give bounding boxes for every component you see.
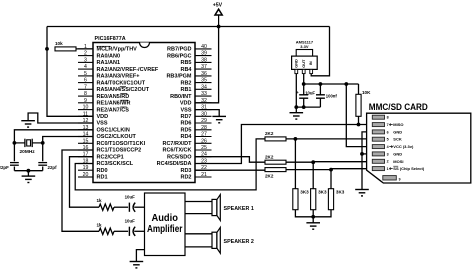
svg-text:3K3: 3K3 [318, 189, 327, 194]
pin 19 RD0 [78, 165, 108, 174]
pin 2 RA0/AN0 [78, 51, 120, 60]
resistor 10k MCLR pull-up [55, 41, 76, 51]
wire 3K3 bus to ground [312, 217, 314, 223]
svg-text:GND: GND [294, 59, 299, 68]
svg-text:3K3: 3K3 [336, 189, 345, 194]
wire amplifier out 2b to speaker2 [185, 246, 212, 248]
ground at VSS pin31 [212, 116, 226, 122]
svg-text:SS (Chip Select): SS (Chip Select) [393, 166, 425, 171]
capacitor C1 22pF [0, 163, 19, 170]
ground at 3K3 resistors [306, 223, 320, 229]
svg-text:10uF: 10uF [125, 194, 136, 199]
wire AMS1117 IN to +5V rail [311, 27, 329, 76]
svg-text:22pf: 22pf [48, 165, 58, 170]
pin 37 RB4 [180, 64, 211, 73]
ground at crystal [22, 176, 36, 182]
pin 36 RB3/PGM [166, 71, 211, 80]
pin 10 RE2/AN7/CS [78, 105, 129, 114]
pin 35 RB2 [180, 78, 211, 87]
svg-text:RA4/T0CKI/C1OUT: RA4/T0CKI/C1OUT [97, 80, 146, 86]
svg-text:27: 27 [201, 132, 207, 138]
svg-text:VCC (3.3v): VCC (3.3v) [393, 144, 414, 149]
chip U1 PIC16F877A body [93, 36, 195, 182]
svg-text:PIC16F877A: PIC16F877A [95, 36, 126, 42]
pin 11 VDD [78, 111, 108, 120]
svg-text:MMC/SD CARD: MMC/SD CARD [369, 102, 428, 113]
wire SD card GND pad3 [362, 153, 372, 155]
svg-text:9: 9 [84, 98, 87, 104]
wire 3.3V to SD card VCC pad4 [346, 84, 372, 147]
overline WR pin9 [120, 99, 128, 101]
svg-text:22pF: 22pF [0, 165, 9, 170]
svg-text:4: 4 [387, 145, 389, 149]
ground at SD card [355, 190, 369, 196]
pin 21 RD2 [180, 172, 211, 181]
wire SS node to 3K3 R11 [330, 170, 332, 189]
pad 5 SCK [372, 137, 402, 142]
svg-text:1: 1 [387, 167, 389, 171]
overline MCLR pin1 [97, 45, 111, 47]
svg-text:MOSI: MOSI [393, 159, 403, 164]
pin 4 RA2/AN2/VREF-/CVREF [78, 64, 159, 73]
wire crystal right to C2 [42, 143, 44, 161]
svg-text:RE1/AN6/WR: RE1/AN6/WR [97, 101, 131, 107]
overline RD pin8 [120, 93, 127, 95]
pin 31 VSS [180, 105, 211, 114]
svg-text:RB3/PGM: RB3/PGM [166, 74, 191, 80]
svg-text:+5V: +5V [213, 3, 223, 9]
svg-text:Amplifier: Amplifier [147, 224, 183, 235]
pin 18 RC3/SCK/SCL [78, 159, 134, 168]
svg-text:RA1/AN1: RA1/AN1 [97, 60, 121, 66]
node 3.3V at C4 [319, 82, 323, 86]
wire 10k to MCLR pin1 [76, 48, 93, 50]
wire +5V rail [47, 26, 330, 28]
svg-text:9: 9 [399, 177, 401, 181]
pin 33 RB0/INT [170, 91, 211, 100]
node SD card grounds [360, 152, 364, 156]
svg-text:3K3: 3K3 [300, 189, 309, 194]
pad 1 SS (Chip Select) [372, 166, 425, 171]
svg-text:8: 8 [84, 91, 87, 97]
node 3.3V at OUT [302, 82, 306, 86]
pin 30 RD7 [180, 111, 211, 120]
svg-text:RC3/SCK/SCL: RC3/SCK/SCL [97, 161, 134, 167]
pin 1 MCLR/Vpp/THV [78, 44, 137, 53]
wire crystal left to C1 [13, 143, 15, 161]
svg-text:RA3/AN3/VREF+: RA3/AN3/VREF+ [97, 74, 140, 80]
svg-text:RB7/PGD: RB7/PGD [167, 47, 191, 53]
svg-text:2K2: 2K2 [265, 173, 274, 178]
node crystal left [13, 141, 17, 145]
wire 10K to MISO line [358, 116, 360, 124]
wire C4 to ground bus [319, 98, 321, 107]
svg-text:20: 20 [83, 172, 89, 178]
capacitor C4 100nF [316, 94, 337, 99]
pad 4 VCC (3.3v) [372, 144, 414, 149]
pin 20 RD1 [78, 172, 108, 181]
pin 9 RE1/AN6/WR [78, 98, 130, 107]
svg-text:GND: GND [393, 129, 402, 134]
wire OSC1 pin13 to crystal [14, 130, 93, 143]
power +5V [213, 3, 223, 27]
svg-text:RE0/AN5/RD: RE0/AN5/RD [97, 94, 130, 100]
svg-text:OUT: OUT [301, 59, 306, 68]
svg-text:2K2: 2K2 [265, 131, 274, 136]
wire 1k R5 to C6 [114, 230, 128, 232]
pin 32 VDD [180, 98, 212, 107]
pin 6 RA4/T0CKI/C1OUT [78, 78, 146, 87]
pin 25 RC6/TX/CK [162, 145, 211, 154]
svg-text:RD3: RD3 [180, 168, 191, 174]
wire SD card GND pad6 down [362, 132, 372, 189]
ground at amplifier [130, 262, 144, 268]
svg-text:37: 37 [201, 64, 207, 70]
svg-text:39: 39 [201, 51, 207, 57]
regulator U3 AMS1117 3.3V [292, 40, 318, 74]
svg-text:30: 30 [201, 111, 207, 117]
wire to regulator ground symbol [295, 107, 297, 113]
svg-text:20MHz: 20MHz [20, 149, 36, 155]
node SCK divider [294, 137, 298, 141]
svg-text:GND: GND [393, 151, 402, 156]
pin 3 RA1/AN1 [78, 57, 120, 66]
svg-text:19: 19 [83, 165, 89, 171]
svg-text:10k: 10k [55, 41, 63, 46]
svg-text:Audio: Audio [151, 213, 178, 224]
wire 3.3V line to 10K pull-up [304, 83, 359, 85]
svg-text:RB1: RB1 [180, 87, 191, 93]
pin 15 RC0/T1OSO/T1CKI [78, 138, 146, 147]
svg-text:RC4/SDI/SDA: RC4/SDI/SDA [157, 161, 192, 167]
svg-text:21: 21 [201, 172, 207, 178]
pad 7 MISO [372, 122, 403, 127]
connector J1 MMC/SD card [367, 102, 471, 183]
node MCLR pull-up [45, 47, 49, 51]
wire 3.3V to C4 [319, 84, 321, 95]
svg-text:RA2/AN2/VREF-/CVREF: RA2/AN2/VREF-/CVREF [97, 67, 159, 73]
wire C2 to ground bus [42, 167, 44, 171]
wire VSS pin31 to ground [195, 110, 219, 117]
svg-text:OSC1/CLKIN: OSC1/CLKIN [97, 128, 130, 134]
svg-text:SPEAKER 2: SPEAKER 2 [224, 239, 254, 245]
pin 34 RB1 [180, 84, 211, 93]
wire C5 to amplifier input 1 [134, 206, 144, 208]
wire +5V to MCLR node and VDD pin 11 [47, 27, 93, 117]
svg-text:6: 6 [84, 78, 87, 84]
wire SS node to SD card SS pad1 [331, 168, 372, 170]
svg-text:RD5: RD5 [180, 128, 191, 134]
pin 5 RA3/AN3/VREF+ [78, 71, 139, 80]
svg-text:10K: 10K [362, 90, 371, 95]
svg-text:RC5/SDO: RC5/SDO [167, 154, 192, 160]
wire RC5/SDO pin24 to 2K2 R7 [195, 157, 265, 163]
svg-text:1: 1 [84, 44, 87, 50]
wire C1 to ground bus [13, 167, 15, 171]
wire C3 to ground bus [303, 98, 305, 107]
pin 27 RD4 [180, 132, 211, 141]
junction +5V rail / VDD pin32 drop [217, 25, 221, 29]
pin 17 RC2/CCP1 [78, 152, 124, 161]
svg-text:SPEAKER 1: SPEAKER 1 [224, 206, 254, 212]
svg-text:MCLR/Vpp/THV: MCLR/Vpp/THV [97, 47, 138, 53]
svg-text:5: 5 [84, 71, 87, 77]
wire +5V to VDD pin 32 [195, 27, 219, 103]
svg-text:SCK: SCK [393, 137, 402, 142]
svg-text:IN: IN [308, 61, 313, 65]
svg-text:8: 8 [387, 116, 389, 120]
wire RC2/CCP1 pin17 to 1k R4 [70, 157, 100, 208]
svg-text:RC1/T1OSI/CCP2: RC1/T1OSI/CCP2 [97, 148, 142, 154]
svg-text:RB6/PGC: RB6/PGC [167, 53, 191, 59]
svg-text:4: 4 [84, 64, 87, 70]
svg-text:VSS: VSS [180, 107, 191, 113]
svg-text:40: 40 [201, 44, 207, 50]
pin 23 RC4/SDI/SDA [157, 159, 212, 168]
wire 3K3 commons [295, 210, 331, 217]
pin 38 RB5 [180, 57, 211, 66]
svg-text:3.3V: 3.3V [300, 44, 309, 49]
node MISO pull-up [357, 123, 361, 127]
wire amplifier out 1b to speaker1 [185, 213, 212, 215]
pin 26 RC7/RX/DT [162, 138, 211, 147]
node crystal ground [27, 169, 31, 173]
wire OSC2 pin14 to crystal [43, 137, 93, 143]
pin 39 RB6/PGC [167, 51, 211, 60]
svg-text:3: 3 [84, 57, 87, 63]
resistor R8 2K2 SS [265, 168, 286, 179]
svg-text:2: 2 [84, 51, 87, 57]
crystal X1 20MHz [14, 139, 42, 156]
ground at regulator [290, 113, 304, 119]
pin 24 RC5/SDO [167, 152, 211, 161]
svg-text:3: 3 [387, 152, 389, 156]
node regulator ground a [294, 105, 298, 109]
node 3K3 ground bus [311, 215, 315, 219]
svg-text:32: 32 [201, 98, 207, 104]
pin 8 RE0/AN5/RD [78, 91, 129, 100]
pin 28 RD5 [180, 125, 211, 134]
overline SS pin7 [120, 86, 126, 88]
ground at VSS pin12 [21, 121, 35, 127]
svg-text:VDD: VDD [180, 101, 192, 107]
svg-text:RD7: RD7 [180, 114, 191, 120]
wire AMS1117 GND leg down [295, 74, 297, 108]
svg-text:RB0/INT: RB0/INT [170, 94, 192, 100]
resistor R11 3K3 [328, 189, 344, 210]
wire 2K2 R7 to MOSI node [286, 161, 313, 163]
pad 8 [372, 115, 388, 119]
svg-text:RC7/RX/DT: RC7/RX/DT [162, 141, 192, 147]
svg-text:RD2: RD2 [180, 175, 191, 181]
resistor R4 1k [97, 198, 115, 210]
pin 22 RD3 [180, 165, 211, 174]
svg-text:38: 38 [201, 57, 207, 63]
svg-text:RD0: RD0 [97, 168, 108, 174]
pin 12 VSS [78, 118, 108, 127]
svg-text:100nf: 100nf [326, 94, 338, 99]
pad 6 GND [372, 129, 402, 134]
overline CS pin10 [120, 106, 127, 108]
wire 2K2 R6 to SD card SCK pad5 [286, 138, 372, 140]
svg-text:35: 35 [201, 78, 207, 84]
svg-text:6: 6 [387, 130, 389, 134]
pin 40 RB7/PGD [167, 44, 211, 53]
wire SCK node to 3K3 R9 [294, 139, 296, 189]
svg-text:5: 5 [387, 138, 389, 142]
pad 3 GND [372, 151, 402, 156]
pin 16 RC1/T1OSI/CCP2 [78, 145, 141, 154]
svg-text:RB2: RB2 [180, 80, 191, 86]
svg-text:1k: 1k [97, 222, 103, 227]
svg-text:28: 28 [201, 125, 207, 131]
svg-text:15: 15 [83, 138, 89, 144]
node MOSI divider [311, 160, 315, 164]
pin 13 OSC1/CLKIN [78, 125, 130, 134]
resistor R7 2K2 MOSI [265, 154, 286, 164]
svg-text:7: 7 [387, 123, 389, 127]
svg-text:RB4: RB4 [180, 67, 192, 73]
wire amplifier out 1a to speaker1 [185, 201, 212, 203]
svg-text:MISO: MISO [393, 122, 403, 127]
capacitor C2 22pF [38, 163, 57, 170]
wire crystal ground bus [14, 170, 42, 172]
wire MOSI node to 3K3 R10 [312, 162, 314, 189]
wire amplifier to ground [136, 250, 144, 262]
svg-text:RE2/AN7/CS: RE2/AN7/CS [97, 107, 130, 113]
wire VSS pin12 to ground [28, 113, 93, 123]
wire RC4/SDI pin23 to SD card MISO pad7 [195, 125, 372, 164]
capacitor C3 10uF [296, 90, 315, 98]
audio amplifier U2 [145, 193, 186, 256]
svg-text:RD4: RD4 [180, 134, 192, 140]
wire regulator ground bus [296, 106, 320, 108]
pad 2 MOSI [372, 159, 403, 164]
wire MOSI node to SD card MOSI pad2 [313, 161, 372, 163]
svg-text:11: 11 [83, 111, 88, 117]
wire to crystal ground symbol [27, 171, 29, 176]
wire C6 to amplifier input 2 [134, 230, 144, 232]
svg-text:26: 26 [201, 138, 207, 144]
resistor R10 3K3 [311, 189, 327, 210]
pin 7 RA5/AN4/SS/C2OUT [78, 84, 150, 93]
resistor R9 3K3 [293, 189, 309, 210]
svg-text:RC0/T1OSO/T1CKI: RC0/T1OSO/T1CKI [97, 141, 146, 147]
resistor R5 1k [97, 222, 115, 234]
wire RC1/CCP2 pin16 to 1k R5 [62, 150, 99, 231]
svg-text:RA0/AN0: RA0/AN0 [97, 53, 121, 59]
node crystal right [41, 141, 45, 145]
node regulator ground b [302, 105, 306, 109]
speaker SPEAKER 1 [212, 195, 254, 221]
svg-text:10uF: 10uF [305, 90, 315, 95]
speaker SPEAKER 2 [212, 227, 254, 253]
svg-text:10: 10 [83, 105, 89, 111]
svg-text:VDD: VDD [97, 114, 109, 120]
svg-text:33: 33 [201, 91, 207, 97]
svg-text:2K2: 2K2 [265, 154, 274, 159]
wire 2K2 R8 to SS node [286, 169, 331, 171]
svg-text:29: 29 [201, 118, 207, 124]
pad 9 [383, 176, 401, 182]
svg-text:1k: 1k [97, 198, 103, 203]
svg-text:RC2/CCP1: RC2/CCP1 [97, 154, 124, 160]
node SS divider [329, 168, 333, 172]
svg-text:34: 34 [201, 84, 207, 90]
svg-text:RD1: RD1 [97, 175, 108, 181]
svg-text:RB5: RB5 [180, 60, 191, 66]
wire RC3/SCK pin18 to 2K2 R6 [75, 139, 265, 190]
svg-text:RD6: RD6 [180, 121, 191, 127]
resistor R3 10K pull-up [356, 90, 371, 116]
wire RD3 pin22 to 2K2 R8 [195, 169, 265, 172]
node 3.3V VCC branch [344, 82, 348, 86]
pin 14 OSC2/CLKOUT [78, 132, 137, 141]
svg-text:RC6/TX/CK: RC6/TX/CK [162, 148, 191, 154]
wire AMS1117 OUT to C3 [303, 74, 305, 95]
resistor R6 2K2 SCK [265, 131, 286, 141]
wire amplifier out 2a to speaker2 [185, 233, 212, 235]
wire 3K3 R10 to common [312, 210, 314, 217]
svg-text:25: 25 [201, 145, 207, 151]
capacitor C5 10uF [125, 194, 136, 212]
svg-text:2: 2 [387, 160, 389, 164]
svg-text:10uF: 10uF [125, 218, 136, 223]
wire 3.3V to 10K [358, 84, 360, 94]
wire 1k R4 to C5 [114, 206, 128, 208]
svg-text:VSS: VSS [97, 121, 108, 127]
svg-text:7: 7 [84, 84, 87, 90]
pin 29 RD6 [180, 118, 211, 127]
svg-text:36: 36 [201, 71, 207, 77]
svg-text:RA5/AN4/SS/C2OUT: RA5/AN4/SS/C2OUT [97, 87, 150, 93]
svg-text:OSC2/CLKOUT: OSC2/CLKOUT [97, 134, 137, 140]
capacitor C6 10uF [125, 218, 136, 236]
